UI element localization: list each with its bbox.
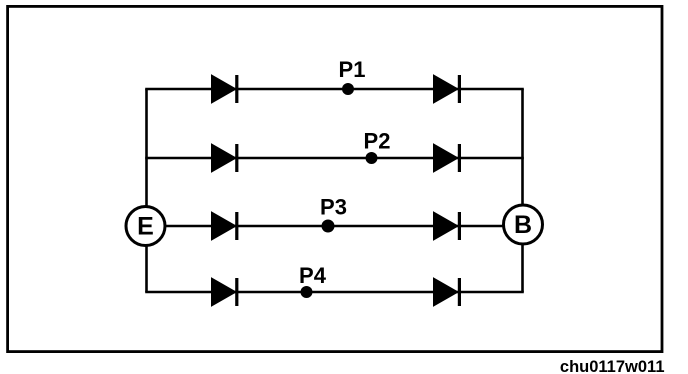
svg-text:P4: P4	[299, 263, 327, 288]
svg-text:P2: P2	[364, 129, 391, 154]
diode D3 (branch 2 left)	[212, 144, 239, 172]
diode D8 (branch 4 right)	[434, 278, 462, 306]
svg-text:P1: P1	[339, 57, 366, 82]
diode D1 (branch 1 left)	[212, 75, 239, 103]
svg-text:P3: P3	[320, 195, 347, 220]
node P2	[366, 152, 378, 164]
wire: branch 2	[145, 157, 524, 160]
wire: branch 1	[145, 88, 524, 91]
diode D4 (branch 2 right)	[434, 144, 462, 172]
wire: right vertical bus	[521, 89, 524, 292]
node P4	[301, 286, 313, 298]
wire: left vertical bus	[145, 89, 148, 292]
svg-text:chu0117w011: chu0117w011	[560, 358, 665, 374]
diode D2 (branch 1 right)	[434, 75, 462, 103]
svg-text:E: E	[137, 213, 154, 241]
wire: branch 4	[145, 291, 524, 294]
svg-text:B: B	[514, 211, 532, 239]
diode D6 (branch 3 right)	[434, 212, 462, 240]
terminal B	[504, 205, 543, 244]
diode D5 (branch 3 left)	[212, 212, 239, 240]
diode D7 (branch 4 left)	[212, 278, 239, 306]
node P3	[322, 220, 335, 233]
node P1	[342, 83, 354, 95]
terminal E	[126, 207, 165, 246]
wire: branch 3	[145, 225, 524, 228]
